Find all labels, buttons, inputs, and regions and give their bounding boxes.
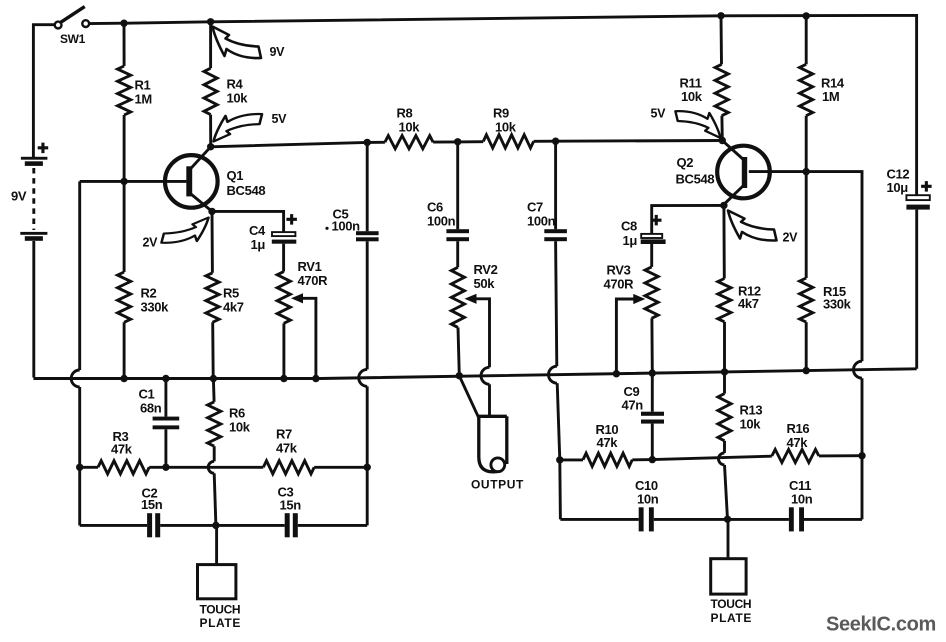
capacitor C9 47n	[641, 373, 664, 460]
resistor R3	[98, 461, 149, 474]
wire: C9 node across to R16	[652, 456, 772, 459]
resistor R8	[385, 136, 433, 149]
svg-text:1M: 1M	[822, 89, 839, 104]
main bottom bus wire	[33, 369, 916, 379]
svg-text:PLATE: PLATE	[711, 611, 752, 625]
node: Q2 collector	[719, 137, 726, 144]
wire: battery negative down to ground bus corner	[32, 241, 35, 378]
wire: R7 to C5 node	[314, 466, 367, 469]
svg-text:330k: 330k	[141, 300, 170, 315]
wire hop: right feedback column over bus	[854, 361, 863, 378]
resistor R6	[208, 379, 221, 462]
wire: C2 row left segment	[80, 524, 147, 527]
svg-text:100n: 100n	[527, 214, 556, 229]
svg-text:RV3: RV3	[607, 263, 631, 278]
svg-text:RV2: RV2	[474, 262, 498, 277]
arrow callout 2V at Q1 emitter	[161, 218, 208, 243]
node: bus at RV3/C9	[649, 369, 656, 376]
wire: C10 to touch node right	[654, 518, 728, 521]
node: bus at R15	[803, 367, 810, 374]
resistor R1	[118, 23, 131, 181]
wire: wiper to output jack tip	[488, 384, 491, 416]
resistor R7	[263, 461, 314, 474]
resistor R15	[800, 172, 813, 371]
node: left row at C1	[162, 464, 169, 471]
wire: bus to output jack sleeve (diagonal)	[459, 376, 479, 418]
svg-text:15n: 15n	[280, 498, 302, 513]
node: left row at feedback column	[76, 464, 83, 471]
wire: Q2 emitter to C8	[652, 205, 724, 234]
svg-text:R6: R6	[229, 406, 245, 421]
wire: C1 node to R7	[166, 466, 263, 469]
svg-text:R5: R5	[223, 286, 239, 301]
battery B1 9V	[20, 157, 47, 241]
wire: R10 to C9 node	[632, 458, 652, 461]
svg-text:9V: 9V	[270, 45, 286, 59]
wire: C5 column down to R7 node	[366, 386, 369, 467]
svg-text:10n: 10n	[791, 492, 813, 507]
output jack J1	[479, 416, 507, 472]
resistor R5	[206, 211, 219, 378]
svg-text:R2: R2	[141, 286, 157, 301]
touch plate left	[198, 525, 236, 598]
svg-text:68n: 68n	[140, 401, 162, 416]
resistor R9	[483, 135, 533, 148]
wire: C3 to C5 column corner	[298, 524, 367, 527]
svg-text:BC548: BC548	[676, 172, 715, 187]
svg-text:100n: 100n	[332, 219, 361, 234]
wire: R13 column to touch node right	[725, 465, 728, 520]
battery plus sign	[38, 143, 49, 154]
node: top rail at R4	[207, 18, 214, 25]
arrow callout 5V at Q2 collector	[675, 111, 720, 138]
node: Q2 base at R14/R15	[803, 168, 810, 175]
svg-text:5V: 5V	[272, 112, 288, 126]
capacitor C7 100n	[544, 141, 567, 366]
RV2 wiper arrow and wire down to output	[465, 294, 490, 368]
node: bus at RV2	[456, 372, 463, 379]
svg-text:SeekIC.com: SeekIC.com	[826, 614, 936, 636]
wire: top supply rail from SW1 to top-right corner, down to C12	[89, 15, 916, 195]
node: bus at RV1	[280, 375, 287, 382]
node: Q1 base at R1/R2	[120, 178, 127, 185]
capacitor C11 10n	[789, 507, 804, 531]
capacitor C4 1u electrolytic	[272, 232, 297, 244]
svg-text:R8: R8	[397, 106, 413, 121]
svg-text:47k: 47k	[111, 442, 133, 457]
node: touch plate node left	[212, 522, 219, 529]
svg-text:R9: R9	[493, 106, 509, 121]
svg-text:Q2: Q2	[677, 155, 694, 170]
potentiometer RV3 470R	[645, 244, 658, 373]
wire: C11 to right feedback corner	[804, 518, 862, 521]
wire: touch node to C11	[728, 518, 789, 521]
svg-text:RV1: RV1	[298, 259, 322, 274]
svg-text:1μ: 1μ	[623, 233, 638, 248]
wire: right feedback corner up	[861, 456, 864, 520]
arrow callout 5V at Q1 collector	[214, 114, 263, 141]
C8 plus sign	[651, 215, 662, 226]
capacitor C6 100n	[446, 142, 469, 267]
wire: Q2 base to R14 node and feedback corner	[749, 172, 862, 362]
svg-text:C4: C4	[249, 223, 266, 238]
svg-text:R1: R1	[135, 78, 151, 93]
node: bus at RV1 wiper	[312, 375, 319, 382]
svg-text:1μ: 1μ	[251, 237, 266, 252]
wire: right R row start	[560, 458, 583, 461]
wire: left R row start	[80, 466, 98, 469]
wire: C7 column down to R10 node	[557, 383, 560, 460]
svg-text:R4: R4	[227, 77, 244, 92]
svg-text:10k: 10k	[495, 120, 517, 135]
node: top rail at R14	[803, 12, 810, 19]
svg-text:Q1: Q1	[227, 168, 244, 183]
node: touch plate node right	[724, 516, 731, 523]
node: rail at C7	[552, 138, 559, 145]
wire: Q1 emitter to C4	[212, 211, 284, 232]
potentiometer RV1 470R	[277, 244, 290, 379]
svg-text:5V: 5V	[651, 107, 667, 121]
svg-text:TOUCH: TOUCH	[711, 597, 752, 611]
svg-text:47k: 47k	[787, 435, 809, 450]
svg-text:C1: C1	[139, 387, 155, 402]
capacitor C2 15n	[147, 513, 160, 537]
svg-text:10k: 10k	[229, 420, 251, 435]
svg-text:10k: 10k	[399, 120, 421, 135]
wire: right feedback column down to R16 node	[861, 378, 864, 456]
svg-text:47n: 47n	[622, 398, 644, 413]
resistor R10	[583, 453, 632, 466]
capacitor C8 1u electrolytic	[641, 234, 666, 244]
wire hop: R13 column over R10/R16 row	[719, 453, 725, 465]
wire: R8 to R9	[433, 140, 483, 143]
svg-text:SW1: SW1	[60, 32, 86, 46]
svg-text:4k7: 4k7	[223, 300, 244, 315]
node: right row at C9	[649, 456, 656, 463]
touch plate right	[711, 519, 746, 594]
capacitor C1 68n	[153, 379, 180, 468]
node: Q1 collector	[207, 143, 214, 150]
transistor Q1 BC548	[165, 147, 218, 212]
wire: R16 to right feedback column	[819, 454, 862, 457]
svg-text:C7: C7	[527, 200, 543, 215]
node: top rail at R11	[717, 12, 724, 19]
capacitor C10 10n	[639, 507, 654, 531]
svg-text:4k7: 4k7	[738, 296, 759, 311]
node: right row at C7 column	[556, 456, 563, 463]
wire: feedback column down to C2 row	[78, 467, 81, 525]
resistor R13	[718, 372, 731, 453]
svg-text:15n: 15n	[141, 497, 163, 512]
wire hop: R6 column over R3/R7 row	[208, 461, 214, 473]
arrow callout 9V at top rail	[213, 27, 262, 59]
node: bus at R5/R6	[210, 375, 217, 382]
svg-text:10k: 10k	[681, 89, 703, 104]
svg-text:C6: C6	[427, 200, 443, 215]
wire: R9 to Q2 collector	[534, 139, 723, 143]
node: Q1 emitter	[208, 208, 215, 215]
wire: feedback column down to R3/C2 node	[78, 387, 81, 467]
svg-text:100n: 100n	[427, 214, 456, 229]
wire hop: base feedback column over bus	[71, 370, 80, 387]
wire: C10 row left segment	[560, 518, 638, 521]
svg-text:R7: R7	[276, 427, 292, 442]
capacitor C12 10u electrolytic	[906, 195, 929, 369]
svg-text:47k: 47k	[597, 435, 619, 450]
RV3 wiper arrow and wire to bus	[616, 294, 645, 374]
svg-text:PLATE: PLATE	[200, 616, 241, 630]
svg-text:470R: 470R	[298, 273, 329, 288]
svg-text:330k: 330k	[823, 297, 852, 312]
svg-text:10k: 10k	[740, 417, 762, 432]
capacitor C5 100n	[356, 142, 379, 369]
resistor R14	[800, 16, 813, 172]
resistor R16	[772, 449, 819, 462]
svg-text:R16: R16	[787, 421, 810, 436]
svg-text:2V: 2V	[143, 236, 159, 250]
node: rail at C5	[364, 139, 371, 146]
resistor R2	[118, 181, 131, 378]
resistor R11	[715, 16, 728, 141]
node: left row at C5 column	[364, 464, 371, 471]
node: bus at C1	[162, 375, 169, 382]
wire: left rail from battery up to switch	[33, 25, 54, 158]
svg-text:470R: 470R	[604, 277, 635, 292]
svg-text:47k: 47k	[276, 441, 298, 456]
svg-text:50k: 50k	[474, 276, 496, 291]
node: right row at feedback column	[858, 452, 865, 459]
RV1 wiper arrow and wire to bus	[291, 293, 316, 378]
wire: C5 column down to C2/C3 row	[366, 467, 369, 525]
svg-text:R13: R13	[740, 403, 763, 418]
resistor R4	[204, 22, 217, 147]
potentiometer RV2 50k	[451, 267, 464, 376]
wire hop: RV2 wiper over bus	[481, 367, 490, 384]
wire: collector rail Q1 to R8	[211, 142, 385, 147]
svg-text:BC548: BC548	[227, 183, 266, 198]
node: Q2 emitter	[720, 202, 727, 209]
svg-text:2V: 2V	[783, 231, 799, 245]
svg-text:C8: C8	[621, 219, 637, 234]
transistor Q2 BC548	[717, 141, 770, 205]
svg-text:9V: 9V	[11, 188, 27, 203]
capacitor C3 15n	[285, 513, 298, 537]
wire hop: C7 column over bus	[549, 366, 558, 383]
arrow callout 2V at Q2 emitter	[728, 211, 777, 241]
node: bus at R12/R13	[721, 368, 728, 375]
wire: Q1 base wire to R1/R2 divider and down to feedback column	[80, 181, 187, 370]
wire: C2 to touch node	[160, 524, 216, 527]
wire: C7 column down to C10 row	[558, 460, 562, 520]
svg-text:10k: 10k	[227, 91, 249, 106]
svg-text:TOUCH: TOUCH	[200, 603, 241, 617]
C4 plus sign	[286, 214, 297, 225]
svg-text:1M: 1M	[135, 91, 152, 106]
svg-text:10μ: 10μ	[887, 180, 909, 195]
svg-text:OUTPUT: OUTPUT	[471, 478, 524, 492]
node: bus at R2	[120, 375, 127, 382]
wire: touch node to C3	[216, 524, 285, 527]
resistor R12	[718, 205, 731, 372]
node: top rail at R1	[120, 20, 127, 27]
C12 plus sign	[921, 181, 932, 192]
switch SW1	[55, 7, 89, 29]
wire: R3 to C1 node	[149, 466, 166, 469]
svg-text:10n: 10n	[637, 492, 659, 507]
wire: R6 column to touch plate node	[214, 473, 216, 525]
node: bus at RV3 wiper	[613, 370, 620, 377]
node: rail at C6	[454, 138, 461, 145]
wire hop: C5 column over bus	[359, 369, 368, 386]
